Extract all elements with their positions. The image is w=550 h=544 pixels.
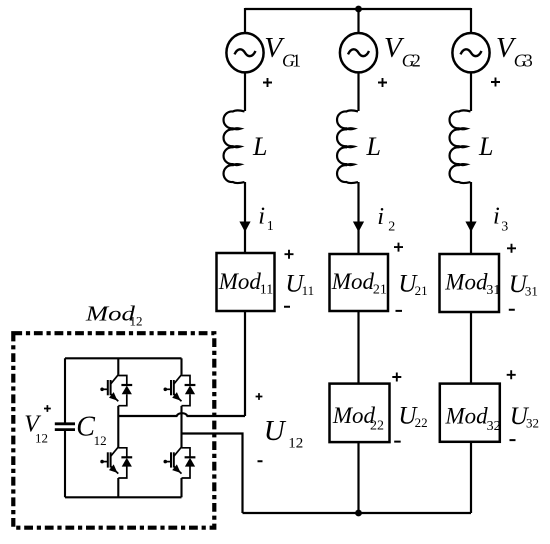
svg-text:22: 22 bbox=[370, 419, 384, 434]
svg-text:11: 11 bbox=[260, 283, 273, 298]
svg-text:2: 2 bbox=[412, 51, 421, 71]
svg-text:1: 1 bbox=[267, 219, 274, 234]
svg-text:Mod: Mod bbox=[331, 269, 375, 294]
svg-text:12: 12 bbox=[288, 435, 303, 451]
svg-text:31: 31 bbox=[525, 284, 538, 299]
svg-text:C: C bbox=[76, 412, 95, 443]
svg-text:i: i bbox=[493, 203, 500, 230]
svg-text:32: 32 bbox=[526, 416, 539, 431]
svg-text:32: 32 bbox=[487, 419, 501, 434]
svg-text:L: L bbox=[252, 132, 267, 161]
svg-text:31: 31 bbox=[486, 283, 500, 298]
svg-text:21: 21 bbox=[415, 283, 428, 298]
svg-text:12: 12 bbox=[35, 430, 48, 445]
svg-text:21: 21 bbox=[373, 283, 387, 298]
svg-text:12: 12 bbox=[130, 314, 143, 329]
svg-text:Mod: Mod bbox=[332, 403, 376, 428]
svg-text:L: L bbox=[478, 132, 493, 161]
svg-text:22: 22 bbox=[415, 415, 428, 430]
svg-text:11: 11 bbox=[302, 283, 315, 298]
svg-text:Mod: Mod bbox=[444, 270, 488, 295]
svg-text:U: U bbox=[264, 415, 287, 447]
svg-text:L: L bbox=[366, 132, 381, 161]
svg-text:Mod: Mod bbox=[85, 301, 136, 325]
svg-text:12: 12 bbox=[94, 433, 107, 448]
svg-text:i: i bbox=[377, 203, 384, 230]
svg-text:3: 3 bbox=[501, 220, 508, 235]
svg-text:3: 3 bbox=[524, 51, 533, 71]
svg-text:1: 1 bbox=[292, 51, 301, 71]
svg-text:Mod: Mod bbox=[445, 404, 489, 429]
svg-text:Mod: Mod bbox=[218, 269, 262, 294]
svg-text:i: i bbox=[258, 203, 265, 230]
svg-text:2: 2 bbox=[388, 220, 395, 235]
